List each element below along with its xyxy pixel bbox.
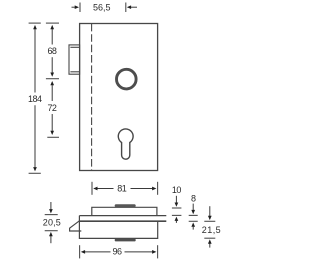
lock case body (front view): [80, 24, 158, 171]
euro profile cylinder keyhole: [118, 129, 133, 159]
10 arrows: [175, 196, 177, 203]
glass pane bottom line: [79, 220, 166, 222]
latch bolt (beveled): [70, 221, 82, 231]
svg-text:72: 72: [47, 103, 57, 113]
81 arrows: [97, 188, 113, 190]
20,5 arrows: [50, 202, 52, 209]
clamp cover plate: [92, 207, 157, 215]
svg-text:184: 184: [28, 94, 42, 104]
96 arrows: [85, 251, 111, 253]
68 extension ticks: [46, 23, 59, 79]
svg-text:68: 68: [47, 46, 57, 56]
8 ticks: [189, 215, 198, 221]
184 arrows: [34, 29, 36, 93]
svg-text:10: 10: [172, 185, 182, 195]
56,5 extension ticks: [80, 3, 126, 13]
svg-text:96: 96: [113, 246, 123, 256]
20,5 ticks: [45, 215, 58, 231]
21,5 arrows: [209, 206, 211, 216]
8 arrows: [192, 204, 194, 211]
glass edge center line (dashed): [91, 24, 93, 171]
bottom gasket pad: [115, 239, 136, 242]
56,5 arrows: [72, 6, 75, 8]
svg-text:20,5: 20,5: [43, 218, 61, 228]
svg-text:81: 81: [117, 184, 127, 194]
svg-text:56,5: 56,5: [93, 3, 111, 13]
glass pane top line: [79, 215, 166, 217]
svg-text:21,5: 21,5: [202, 225, 221, 235]
strike tab on left edge: [69, 45, 80, 74]
lock body under glass: [79, 216, 157, 239]
10 ticks: [172, 208, 182, 215]
184 extension ticks: [29, 23, 41, 173]
21,5 ticks: [204, 221, 215, 238]
handle spindle hole: [117, 69, 137, 89]
72 extension tick (keyhole center): [47, 136, 59, 138]
72 arrows: [51, 85, 53, 101]
81 extension ticks: [92, 182, 158, 195]
68 arrows: [51, 29, 53, 45]
top gasket pad: [115, 204, 136, 207]
96 extension ticks: [80, 245, 158, 258]
svg-text:8: 8: [191, 193, 196, 203]
